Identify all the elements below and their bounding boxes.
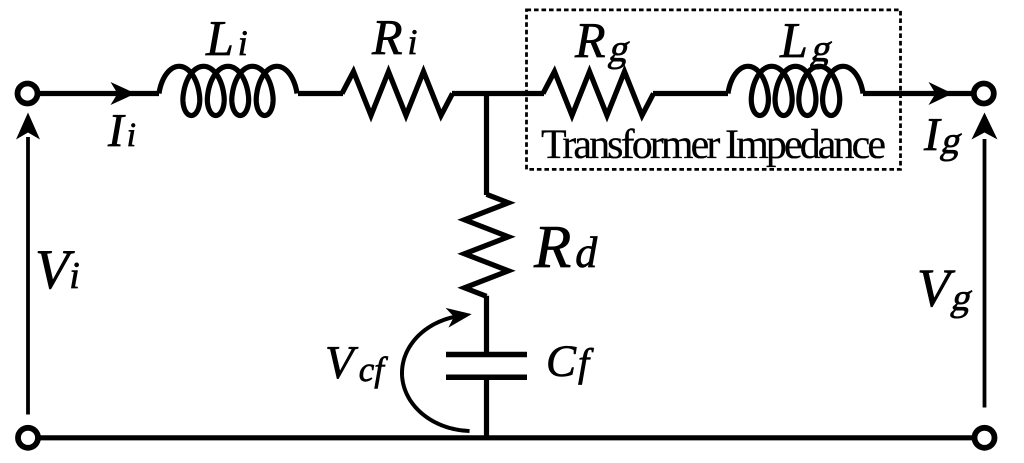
svg-text:C: C (546, 336, 577, 386)
svg-text:L: L (205, 10, 234, 66)
svg-text:R: R (371, 9, 403, 65)
svg-text:Transformer Impedance: Transformer Impedance (541, 122, 886, 168)
svg-text:L: L (779, 12, 808, 68)
svg-text:i: i (127, 117, 136, 154)
svg-text:cf: cf (359, 350, 389, 389)
svg-text:i: i (408, 22, 418, 62)
svg-text:R: R (533, 214, 571, 281)
svg-text:d: d (575, 228, 598, 277)
svg-text:i: i (238, 23, 248, 63)
svg-text:i: i (69, 255, 80, 297)
svg-text:R: R (574, 12, 606, 68)
svg-text:I: I (107, 105, 126, 157)
